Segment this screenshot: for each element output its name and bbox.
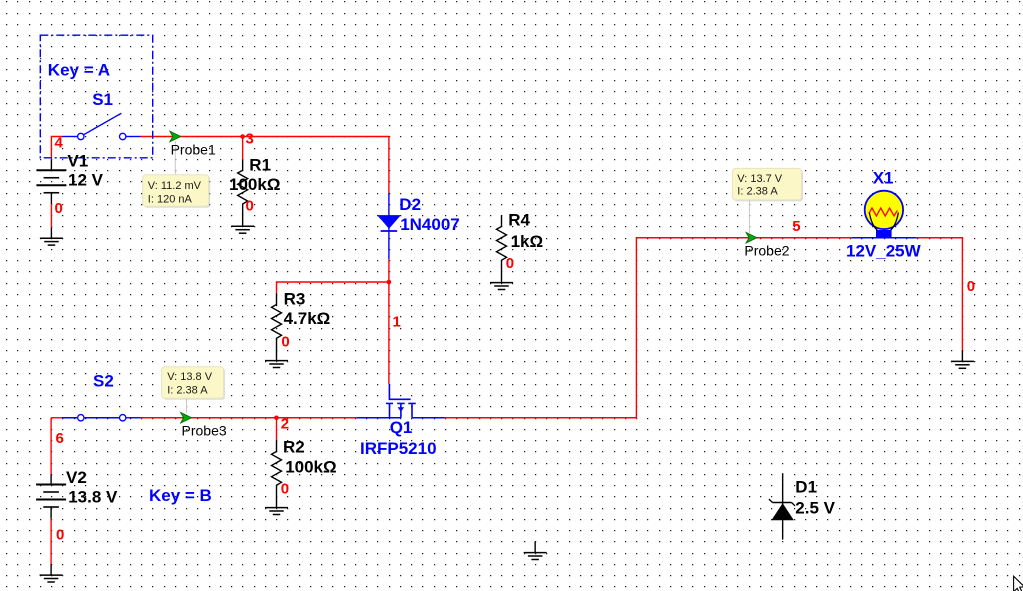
svg-text:Probe2: Probe2 xyxy=(744,243,789,259)
svg-text:0: 0 xyxy=(281,480,289,497)
svg-text:S2: S2 xyxy=(93,372,114,391)
svg-text:0: 0 xyxy=(56,527,64,544)
svg-text:Q1: Q1 xyxy=(390,418,413,437)
svg-text:2.5 V: 2.5 V xyxy=(795,499,835,518)
svg-text:100kΩ: 100kΩ xyxy=(229,175,280,194)
svg-text:D2: D2 xyxy=(399,195,421,214)
svg-text:I: 120 nA: I: 120 nA xyxy=(148,193,193,205)
svg-text:S1: S1 xyxy=(92,90,113,109)
svg-text:5: 5 xyxy=(792,218,800,235)
svg-text:R3: R3 xyxy=(284,290,306,309)
svg-text:Probe1: Probe1 xyxy=(171,142,216,158)
svg-text:0: 0 xyxy=(506,255,514,272)
svg-text:0: 0 xyxy=(55,200,63,217)
svg-text:Key = A: Key = A xyxy=(48,61,110,80)
svg-text:3: 3 xyxy=(246,131,254,148)
svg-text:Probe3: Probe3 xyxy=(182,423,227,439)
svg-text:R2: R2 xyxy=(283,438,305,457)
svg-text:V: 13.7 V: V: 13.7 V xyxy=(737,173,783,185)
svg-text:R4: R4 xyxy=(508,211,530,230)
svg-text:1: 1 xyxy=(393,314,401,331)
svg-text:4: 4 xyxy=(55,135,64,152)
svg-text:X1: X1 xyxy=(873,169,894,188)
svg-text:100kΩ: 100kΩ xyxy=(285,457,336,476)
svg-text:V2: V2 xyxy=(66,468,87,487)
svg-text:Key = B: Key = B xyxy=(149,486,212,505)
svg-text:1kΩ: 1kΩ xyxy=(511,232,544,251)
svg-text:13.8 V: 13.8 V xyxy=(68,488,118,507)
svg-text:12V_25W: 12V_25W xyxy=(846,242,922,261)
svg-text:V: 13.8 V: V: 13.8 V xyxy=(167,371,213,383)
svg-text:V1: V1 xyxy=(67,152,88,171)
svg-text:R1: R1 xyxy=(249,156,271,175)
svg-text:I: 2.38 A: I: 2.38 A xyxy=(167,385,208,397)
svg-text:1N4007: 1N4007 xyxy=(400,215,460,234)
svg-text:IRFP5210: IRFP5210 xyxy=(360,439,437,458)
svg-text:6: 6 xyxy=(56,430,64,447)
svg-text:0: 0 xyxy=(967,278,975,295)
svg-text:D1: D1 xyxy=(795,477,817,496)
svg-text:4.7kΩ: 4.7kΩ xyxy=(284,309,331,328)
svg-text:I: 2.38 A: I: 2.38 A xyxy=(737,186,778,198)
svg-text:0: 0 xyxy=(281,333,289,350)
svg-text:0: 0 xyxy=(246,198,254,215)
svg-text:2: 2 xyxy=(281,416,289,433)
svg-text:V: 11.2 mV: V: 11.2 mV xyxy=(148,180,202,192)
svg-text:12 V: 12 V xyxy=(68,170,104,189)
